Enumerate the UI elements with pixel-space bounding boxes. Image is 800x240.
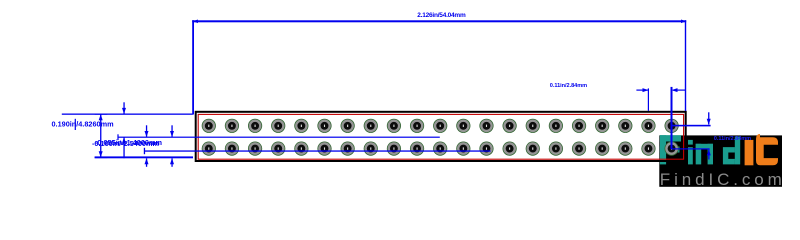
pad col 15 row 1 (top) [526,119,540,133]
pad col 9 row 2 (bottom) [387,142,401,156]
right dim #2: up arrow x=708.8 [707,149,711,159]
line B left end tick [144,148,145,154]
svg-text:0.11in/2.84mm: 0.11in/2.84mm [714,136,751,142]
arrows into line A at x=146.5 and x=172 [145,125,175,137]
svg-text:0.190in/4.8260mm: 0.190in/4.8260mm [52,120,115,129]
component body red inner border [198,114,683,159]
pad col 16 row 2 (bottom) [549,142,563,156]
left line B (y=151) [144,150,490,151]
pad col 4 row 1 (top) [271,119,285,133]
pad col 13 row 1 (top) [479,119,493,133]
arrows up into L2 at x=146.5 and x=172 [145,158,175,166]
left extension line L1 (y=114) [62,114,193,115]
pad col 15 row 2 (bottom) [526,142,540,156]
pad col 12 row 2 (bottom) [456,142,470,156]
left dim 2 arrow above L1 (x=124) [122,102,126,114]
pad col 1 row 2 (bottom) [202,142,216,156]
pad col 8 row 1 (top) [364,119,378,133]
pad col 18 row 2 (bottom) [595,142,609,156]
pad col 7 row 1 (top) [341,119,355,133]
pad col 18 row 1 (top) [595,119,609,133]
svg-text:-0.055in/-1.4000mm: -0.055in/-1.4000mm [95,138,162,147]
top dimension arrowheads [193,20,198,24]
right dim #1: extension line x=648.3 [648,88,649,110]
pad col 17 row 2 (bottom) [572,142,586,156]
pad col 19 row 1 (top) [618,119,632,133]
pad col 2 row 2 (bottom) [225,142,239,156]
pad col 19 row 2 (bottom) [618,142,632,156]
pad col 6 row 1 (top) [317,119,331,133]
pad col 4 row 2 (bottom) [271,142,285,156]
pad col 3 row 2 (bottom) [248,142,262,156]
small tick crossing text1 at x=75 [75,119,76,130]
right dim #2: down arrow x=708.7 [707,112,711,124]
logo letter C [756,134,778,165]
pad col 14 row 2 (bottom) [503,142,517,156]
pad col 20 row 2 (bottom) [641,142,655,156]
left extension line L2 (y=157.4) [95,156,193,158]
left dim 2 line below A (x=124) [122,137,126,158]
svg-text:0.11in/2.84mm: 0.11in/2.84mm [550,83,587,89]
pad col 13 row 2 (bottom) [479,142,493,156]
pad col 6 row 2 (bottom) [317,142,331,156]
svg-text:FindIC.com: FindIC.com [660,170,786,189]
right dim #1: left arrow [636,88,648,92]
top dimension extension line left (x=193) [192,20,194,114]
pad col 16 row 1 (top) [549,119,563,133]
right dim #1: right arrow [672,88,686,92]
top dimension line [192,20,686,22]
pad col 1 row 1 (top) [202,119,216,133]
left line A (y=137) [118,137,440,138]
logo letter n [696,144,713,165]
pad col 21 row 1 (top) [665,119,679,133]
pad col 2 row 1 (top) [225,119,239,133]
pad col 5 row 2 (bottom) [294,142,308,156]
pad col 7 row 2 (bottom) [341,142,355,156]
line A left end tick [117,134,118,140]
pad col 10 row 2 (bottom) [410,142,424,156]
pad col 14 row 1 (top) [503,119,517,133]
component body black border [196,112,686,161]
logo letter d [723,137,740,165]
logo letter i [688,140,693,165]
top dimension extension line right (x=685.5) [685,20,686,111]
pad col 20 row 1 (top) [641,119,655,133]
pad col 11 row 1 (top) [433,119,447,133]
logo letter F [660,135,681,164]
pad col 11 row 2 (bottom) [433,142,447,156]
svg-text:2.126in/54.04mm: 2.126in/54.04mm [417,12,466,19]
pad col 8 row 2 (bottom) [364,142,378,156]
pad col 17 row 1 (top) [572,119,586,133]
pad col 12 row 1 (top) [456,119,470,133]
right dim #2: row2 leader line y=148.9 [672,148,710,149]
logo letter I [745,140,754,165]
pad col 10 row 1 (top) [410,119,424,133]
FindIC logo background [659,135,782,186]
left dim line 1 (x=100.8) [95,114,108,159]
pad col 21 row 2 (bottom) [665,142,679,156]
right dim #2: row1 leader line y=125.6 [672,125,711,127]
right dim #1: tall line x=671.5 [671,87,673,149]
pad col 3 row 1 (top) [248,119,262,133]
pad col 9 row 1 (top) [387,119,401,133]
pad col 5 row 1 (top) [294,119,308,133]
